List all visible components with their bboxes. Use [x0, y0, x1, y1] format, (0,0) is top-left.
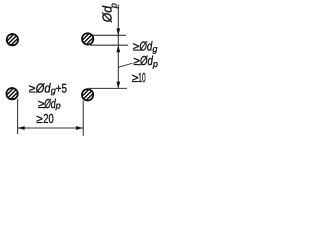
arrowhead right on >=20 dimension	[76, 126, 83, 130]
svg-text:10: 10	[138, 70, 145, 85]
hole bottom-left (hatched circle)	[4, 86, 19, 101]
svg-text:Ød: Ød	[139, 38, 153, 53]
svg-text:p: p	[55, 100, 61, 110]
label >= dia d_g + 5 (left, row 1)	[29, 81, 67, 96]
svg-text:≥: ≥	[36, 112, 43, 126]
label >= 20 (left, row 3)	[36, 111, 54, 126]
label >= 10 (right, row 3)	[132, 70, 146, 85]
svg-text:+5: +5	[56, 82, 67, 96]
horizontal dimension line >= 20	[18, 127, 84, 129]
svg-text:p: p	[108, 3, 118, 9]
label >= dia d_g (right, row 1)	[133, 38, 158, 54]
svg-text:Ød: Ød	[44, 96, 57, 111]
svg-text:Ød: Ød	[35, 81, 51, 96]
arrowhead down at bottom-right hole top tangent	[116, 82, 120, 89]
arrowhead down at upper extension line	[116, 28, 120, 35]
extension line right of bottom-left hole (vertical)	[17, 99, 19, 134]
svg-text:20: 20	[43, 111, 54, 126]
svg-text:p: p	[152, 59, 158, 69]
svg-text:≥: ≥	[29, 82, 36, 96]
arrowhead left on >=20 dimension	[18, 126, 25, 130]
extension line upper (from top-right hole edge)	[93, 34, 126, 36]
label >= dia d_p (left, row 2)	[38, 96, 61, 111]
hole top-left (hatched circle)	[5, 32, 20, 47]
extension line at bottom tangent of top-right hole	[90, 44, 128, 46]
extension line left of bottom-right hole (vertical)	[82, 101, 84, 136]
svg-text:Ød: Ød	[139, 53, 153, 68]
leader line to >= dia d_p label	[118, 63, 132, 67]
hole top-right (hatched circle, diameter d_p)	[80, 31, 95, 46]
label dia d_p (rotated, top)	[99, 3, 118, 23]
svg-text:g: g	[152, 44, 157, 54]
label >= dia d_p (right, row 2)	[133, 53, 158, 69]
extension line at top tangent of bottom-right hole	[89, 87, 127, 89]
arrowhead up below bottom tangent line	[116, 45, 120, 52]
hole bottom-right (hatched circle)	[80, 87, 95, 102]
vertical dimension line x=118.3	[117, 5, 119, 89]
